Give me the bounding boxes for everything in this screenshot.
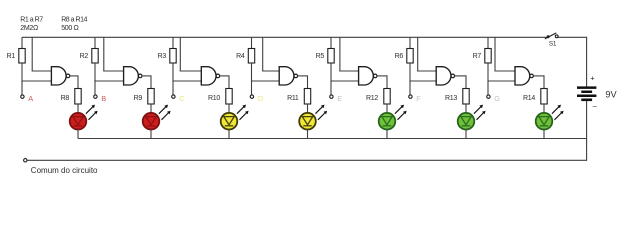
- svg-text:B: B: [101, 94, 106, 103]
- svg-text:R12: R12: [366, 95, 378, 102]
- svg-text:R14: R14: [523, 95, 535, 102]
- svg-text:R13: R13: [445, 95, 457, 102]
- svg-text:R1 a R7: R1 a R7: [20, 17, 43, 24]
- svg-text:S1: S1: [549, 41, 557, 48]
- svg-text:R7: R7: [473, 53, 482, 60]
- svg-text:R3: R3: [158, 53, 167, 60]
- svg-text:R8 a R14: R8 a R14: [61, 17, 87, 24]
- svg-text:R2: R2: [80, 53, 89, 60]
- svg-text:R11: R11: [287, 95, 299, 102]
- svg-text:9V: 9V: [605, 90, 617, 100]
- svg-text:Comum do circuito: Comum do circuito: [31, 166, 98, 175]
- svg-text:R1: R1: [7, 53, 16, 60]
- svg-text:2M2Ω: 2M2Ω: [20, 25, 38, 32]
- svg-text:R6: R6: [395, 53, 404, 60]
- svg-text:G: G: [494, 94, 500, 103]
- svg-text:E: E: [337, 94, 342, 103]
- svg-text:500 Ω: 500 Ω: [61, 25, 78, 32]
- svg-text:R8: R8: [61, 95, 70, 102]
- svg-text:D: D: [258, 94, 263, 103]
- svg-text:+: +: [590, 74, 595, 83]
- svg-text:R10: R10: [208, 95, 220, 102]
- svg-text:R9: R9: [134, 95, 143, 102]
- svg-text:R5: R5: [316, 53, 325, 60]
- svg-text:A: A: [28, 94, 33, 103]
- svg-text:R4: R4: [236, 53, 245, 60]
- svg-text:C: C: [179, 94, 185, 103]
- svg-text:F: F: [416, 94, 421, 103]
